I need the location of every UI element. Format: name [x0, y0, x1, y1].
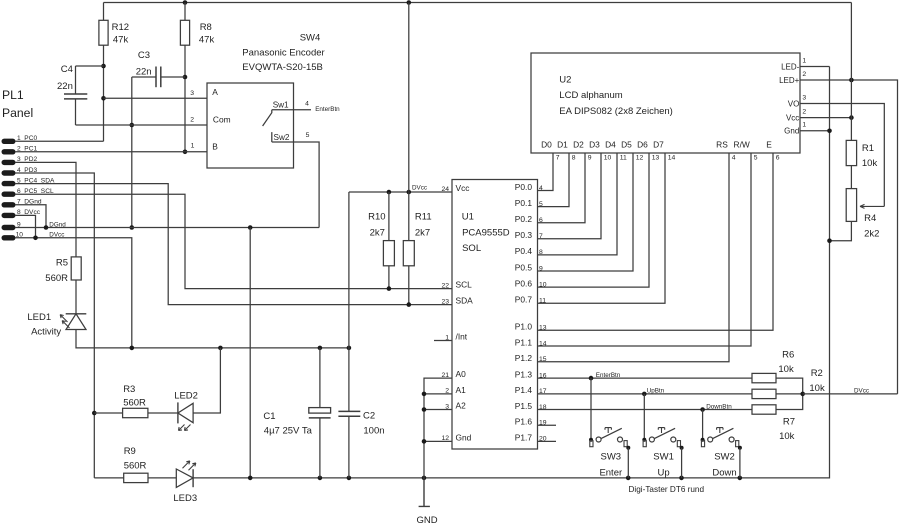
encoder SW4 box: [207, 83, 294, 168]
wire DVcc node to right rail: [803, 393, 898, 395]
svg-text:14: 14: [668, 155, 676, 162]
wire R4 bottom to gnd vertical: [830, 221, 852, 240]
wire pin6 PC5_SCL to U1 SCL: [15, 194, 452, 288]
junction top rail / R11 branch: [407, 0, 412, 5]
svg-text:10k: 10k: [779, 431, 795, 442]
connector PL1 pad pin 3: [2, 160, 16, 165]
junction R8 line / B wire: [183, 150, 188, 155]
wire LED2 up to DVcc row: [193, 348, 220, 413]
svg-text:D7: D7: [653, 139, 664, 149]
svg-text:EnterBtn: EnterBtn: [596, 372, 621, 379]
wire U2 VO to R4 wiper: [800, 104, 884, 207]
LED1 arrows: [60, 315, 69, 328]
svg-text:22: 22: [441, 282, 449, 289]
switch SW3 actuator: [605, 428, 611, 433]
svg-text:B: B: [212, 142, 218, 152]
svg-text:2k2: 2k2: [864, 228, 879, 239]
resistor R9: [124, 473, 148, 482]
svg-text:EVQWTA-S20-15B: EVQWTA-S20-15B: [242, 62, 323, 73]
wire U2 Vcc: [800, 117, 851, 119]
wire P0.6 to LCD D6: [538, 153, 650, 287]
svg-text:A1: A1: [456, 385, 467, 395]
junction DownBtn / SW2: [700, 407, 705, 412]
svg-text:Panel: Panel: [2, 106, 33, 120]
junction UpBtn / SW1: [642, 392, 647, 397]
svg-text:P0.1: P0.1: [515, 198, 533, 208]
connector PL1 pad pin 8: [2, 213, 16, 218]
svg-text:2: 2: [802, 108, 806, 115]
wire R2 right: [776, 393, 803, 395]
svg-text:SW3: SW3: [601, 452, 622, 463]
svg-text:EnterBtn: EnterBtn: [315, 106, 340, 113]
svg-text:R3: R3: [123, 384, 135, 395]
svg-text:D4: D4: [605, 139, 616, 149]
svg-text:Digi-Taster DT6 rund: Digi-Taster DT6 rund: [629, 485, 705, 494]
connector PL1 pad pin 6: [2, 192, 16, 197]
svg-text:10k: 10k: [862, 158, 878, 169]
LED LED2: [148, 412, 178, 414]
svg-text:R12: R12: [112, 22, 129, 33]
svg-text:Up: Up: [658, 467, 670, 478]
junction DVcc pins 8/10: [33, 236, 38, 241]
svg-text:3: 3: [802, 94, 806, 101]
connector PL1 pad pin 1: [2, 139, 16, 144]
svg-text:D6: D6: [637, 139, 648, 149]
svg-text:LED1: LED1: [27, 312, 51, 323]
wire P0.4 to LCD D4: [538, 153, 618, 255]
switch SW1 actuator: [658, 428, 664, 433]
svg-text:SDA: SDA: [456, 296, 474, 306]
svg-text:R7: R7: [783, 416, 795, 427]
junction Vcc wire / R10: [387, 190, 392, 195]
svg-text:10: 10: [604, 155, 612, 162]
svg-text:R6: R6: [782, 349, 794, 360]
U1 A0-A2 Gnd tie to ground: [424, 378, 452, 478]
junction GND rail / DGnd branch: [248, 476, 253, 481]
svg-text:DVcc: DVcc: [49, 232, 64, 239]
svg-text:PL1: PL1: [2, 88, 24, 102]
junction DGnd pins 7/9: [44, 225, 49, 230]
wire GND rail main: [193, 67, 829, 478]
resistor R2: [752, 389, 776, 398]
junction GND rail / C1: [318, 476, 323, 481]
connector PL1 pad pin 9: [2, 225, 16, 230]
svg-text:P1.1: P1.1: [515, 337, 533, 347]
connector PL1 pad pin 2: [2, 149, 16, 154]
svg-text:P1.4: P1.4: [515, 385, 533, 395]
svg-text:560R: 560R: [45, 273, 68, 284]
svg-text:R/W: R/W: [734, 139, 750, 149]
svg-text:P0.5: P0.5: [515, 262, 533, 272]
svg-text:Sw1: Sw1: [273, 101, 289, 110]
svg-text:560R: 560R: [123, 398, 146, 409]
switch SW3 left terminal+wire: [590, 378, 592, 440]
junction gnd vertical / A1: [422, 392, 427, 397]
wire P0.1 to LCD D1: [538, 153, 570, 207]
junction DVcc row / C2-Vcc line: [347, 346, 352, 351]
svg-text:R1: R1: [862, 143, 874, 154]
resistor R10: [388, 192, 390, 241]
svg-text:10k: 10k: [778, 364, 794, 375]
svg-text:/Int: /Int: [456, 332, 468, 342]
svg-text:Gnd: Gnd: [456, 433, 472, 443]
svg-text:23: 23: [441, 298, 449, 305]
junction Vcc wire / R11-top-rail: [407, 190, 412, 195]
svg-text:1: 1: [802, 122, 806, 129]
R4 wiper arrow: [860, 204, 884, 208]
LED2 arrows: [179, 425, 191, 431]
svg-text:D0: D0: [541, 139, 552, 149]
wire P1.4 UpBtn row: [538, 393, 753, 395]
wire P0.0 to LCD D0: [538, 153, 554, 191]
svg-text:RS: RS: [716, 139, 728, 149]
svg-text:11: 11: [620, 155, 627, 162]
svg-text:DownBtn: DownBtn: [706, 403, 732, 410]
wire C3 left down to DGnd: [131, 77, 133, 228]
resistor R8: [184, 3, 186, 21]
wire GND rail left segment: [94, 477, 123, 479]
svg-text:47k: 47k: [199, 34, 215, 45]
svg-text:C2: C2: [363, 411, 375, 422]
svg-text:SCL: SCL: [456, 280, 473, 290]
svg-text:3: 3: [190, 90, 194, 97]
wire P1.6 stub: [538, 424, 557, 426]
wire P1.2 to LCD RS: [538, 153, 730, 362]
junction gnd vertical / U2 Gnd: [827, 129, 832, 134]
capacitor C4: [75, 66, 77, 94]
connector PL1 pad pin 5: [2, 181, 16, 186]
wire U2 LED- to gnd vertical: [800, 66, 830, 68]
wire P1.1 to LCD R/W: [538, 153, 752, 346]
switch SW2 right terminal+wire: [736, 441, 739, 447]
junction DGnd run / x250 branch: [248, 225, 253, 230]
svg-text:D1: D1: [557, 139, 568, 149]
wire pin1 PC0 to A net: [15, 140, 104, 142]
resistor R7: [752, 405, 776, 414]
svg-text:LED-: LED-: [781, 62, 800, 71]
svg-text:P0.3: P0.3: [515, 230, 533, 240]
svg-text:R10: R10: [368, 212, 385, 223]
svg-text:Down: Down: [712, 467, 736, 478]
svg-text:EA DIPS082 (2x8 Zeichen): EA DIPS082 (2x8 Zeichen): [559, 106, 673, 117]
svg-text:P1.6: P1.6: [515, 417, 533, 427]
svg-text:DVcc: DVcc: [412, 185, 427, 192]
svg-text:P1.3: P1.3: [515, 369, 533, 379]
junction R11 / SDA wire: [407, 302, 412, 307]
junction gnd vertical / Gnd: [422, 439, 427, 444]
junction R10 / SCL wire: [387, 286, 392, 291]
junction R12 line / A wire: [101, 96, 106, 101]
junction EnterBtn / SW3: [589, 376, 594, 381]
svg-text:4µ7 25V Ta: 4µ7 25V Ta: [264, 426, 313, 437]
svg-text:1: 1: [191, 143, 195, 150]
wire pin2 PC1 to B: [15, 151, 207, 153]
svg-text:Vcc: Vcc: [786, 113, 799, 122]
svg-text:DVcc: DVcc: [854, 387, 869, 394]
IC U1 box PCA9555D: [452, 180, 538, 450]
svg-text:13: 13: [652, 155, 660, 162]
wire P0.5 to LCD D5: [538, 153, 634, 271]
svg-text:VO: VO: [788, 99, 800, 108]
svg-text:U1: U1: [462, 212, 474, 223]
svg-text:LCD alphanum: LCD alphanum: [559, 90, 622, 101]
wire R7 right to DVcc node: [776, 394, 803, 410]
LED3 arrows: [183, 461, 196, 470]
junction gnd vertical / A2: [422, 407, 427, 412]
wire DGnd branch down to GND rail: [249, 228, 251, 478]
svg-text:R9: R9: [124, 446, 136, 457]
svg-text:24: 24: [441, 186, 449, 193]
svg-text:7: 7: [556, 155, 560, 162]
LED LED1: [66, 313, 87, 315]
IC U2 LCD box: [531, 53, 800, 153]
svg-text:22n: 22n: [57, 81, 73, 92]
wire U2 Gnd: [800, 130, 830, 132]
U1 /Int stub: [434, 340, 452, 342]
svg-text:C3: C3: [138, 50, 150, 61]
junction DVcc row / C1: [318, 346, 323, 351]
svg-text:A2: A2: [456, 401, 467, 411]
svg-text:5: 5: [754, 155, 758, 162]
junction Vcc / divider: [849, 115, 854, 120]
svg-text:LED3: LED3: [173, 493, 197, 504]
svg-text:R11: R11: [415, 212, 432, 223]
svg-text:Enter: Enter: [599, 467, 622, 478]
junction GND rail / U1 gnd vertical: [422, 476, 427, 481]
wire LED1 to DVcc row: [76, 330, 349, 348]
wire pin4 PD3 down to R3/R9: [15, 173, 94, 478]
junction R8 line / C3 right: [183, 75, 188, 80]
svg-text:9: 9: [588, 155, 592, 162]
svg-text:6: 6: [776, 155, 780, 162]
switch SW1 left terminal+wire: [643, 394, 645, 440]
connector PL1 pad pin 10: [2, 235, 16, 240]
svg-text:E: E: [766, 139, 772, 149]
wire P1.3 EnterBtn row: [538, 377, 753, 379]
svg-text:P0.7: P0.7: [515, 295, 533, 305]
svg-text:DGnd: DGnd: [49, 221, 66, 228]
wire pin5 PC4_SDA to U1 SDA: [15, 184, 452, 305]
connector PL1 pad pin 7: [2, 202, 16, 207]
switch SW3 contacts and arm: [596, 437, 601, 442]
switch SW1 right terminal+wire: [677, 441, 680, 447]
svg-text:R8: R8: [200, 22, 212, 33]
LED LED3: [176, 469, 193, 487]
wire P0.3 to LCD D3: [538, 153, 602, 239]
junction GND rail / C2: [347, 476, 352, 481]
svg-text:Vcc: Vcc: [456, 183, 470, 193]
switch SW3 right terminal+wire: [624, 441, 627, 447]
svg-text:Sw2: Sw2: [274, 133, 290, 142]
svg-text:P1.5: P1.5: [515, 401, 533, 411]
svg-text:2k7: 2k7: [415, 228, 430, 239]
switch SW2 contacts and arm: [708, 437, 713, 442]
connector PL1 pad pin 4: [2, 170, 16, 175]
junction DVcc row / DVcc vertical: [130, 346, 135, 351]
wire GND rail R9-LED3: [148, 477, 176, 479]
svg-text:D2: D2: [573, 139, 584, 149]
svg-text:2: 2: [802, 71, 806, 78]
resistor R11: [403, 241, 414, 266]
svg-text:P0.6: P0.6: [515, 278, 533, 288]
junction DGnd line / Com wire: [130, 123, 135, 128]
trimmer R4: [846, 189, 856, 222]
wire pin3 PD2 to R5: [15, 162, 76, 257]
pin 5 stub to DGnd: [294, 142, 320, 228]
capacitor C2: [348, 192, 350, 411]
junction pullups DVcc node: [800, 392, 805, 397]
resistor R12: [103, 3, 105, 21]
wire node Com to SW4: [76, 124, 208, 126]
svg-text:LED+: LED+: [779, 76, 800, 85]
svg-text:Gnd: Gnd: [784, 127, 799, 136]
switch SW2 actuator: [717, 428, 723, 433]
svg-text:PCA9555D: PCA9555D: [462, 228, 510, 239]
svg-text:10k: 10k: [809, 383, 825, 394]
svg-text:4: 4: [732, 155, 736, 162]
wire pin9 + DGnd run: [15, 227, 319, 229]
junction R12 line / C4 top: [101, 64, 106, 69]
junction PD3 / R3 wire: [92, 411, 97, 416]
svg-text:R5: R5: [56, 258, 68, 269]
resistor R3: [94, 412, 122, 414]
wire top rail branch down to Vcc wire: [408, 3, 410, 241]
svg-text:D3: D3: [589, 139, 600, 149]
wire P0.2 to LCD D2: [538, 153, 586, 223]
svg-text:P0.4: P0.4: [515, 246, 533, 256]
svg-text:P1.2: P1.2: [515, 353, 533, 363]
wire top DVcc rail: [104, 2, 852, 4]
svg-text:2k7: 2k7: [370, 228, 385, 239]
svg-text:SW1: SW1: [653, 452, 674, 463]
svg-text:22n: 22n: [136, 66, 152, 77]
wire C4 top to R12 line: [76, 65, 104, 67]
switch SW1 contacts and arm: [649, 437, 654, 442]
svg-text:UpBtn: UpBtn: [647, 388, 665, 395]
junction GND rail / SW1: [679, 476, 684, 481]
wire node A to SW4: [104, 97, 208, 99]
svg-text:12: 12: [636, 155, 644, 162]
svg-text:8: 8: [572, 155, 576, 162]
wire R5 to LED1: [75, 280, 77, 314]
wire R1 to R4: [850, 166, 852, 189]
svg-text:C4: C4: [61, 64, 73, 75]
svg-text:5: 5: [306, 132, 310, 139]
resistor R5: [71, 257, 81, 280]
wire R6 right to DVcc node: [776, 378, 803, 394]
svg-text:P1.0: P1.0: [515, 322, 533, 332]
wire pin8 DVcc: [15, 215, 36, 237]
junction DVcc row / LED2 branch: [218, 346, 223, 351]
svg-text:SW2: SW2: [714, 452, 735, 463]
wire P0.7 to LCD D7: [538, 153, 666, 303]
svg-text:SOL: SOL: [462, 243, 481, 254]
svg-text:R4: R4: [864, 213, 876, 224]
wire top rail down to divider: [850, 3, 852, 141]
pin 4 stub EnterBtn: [294, 109, 312, 111]
wire DVcc to U1 Vcc: [349, 191, 452, 193]
wire P1.0 to LCD E: [538, 153, 774, 330]
svg-text:2: 2: [190, 117, 194, 124]
svg-text:P0.2: P0.2: [515, 214, 533, 224]
svg-text:LED2: LED2: [174, 391, 198, 402]
wire pin7 DGnd: [15, 205, 46, 228]
svg-text:A: A: [212, 87, 218, 97]
wire P1.5 DownBtn row: [538, 409, 753, 411]
junction top rail / R8: [183, 0, 188, 5]
svg-text:560R: 560R: [124, 461, 147, 472]
junction GND rail / SW2: [738, 476, 743, 481]
svg-text:Com: Com: [213, 114, 231, 124]
svg-text:R2: R2: [811, 368, 823, 379]
switch SW2 left terminal+wire: [702, 410, 704, 441]
svg-text:100n: 100n: [363, 426, 384, 437]
svg-text:P0.0: P0.0: [515, 182, 533, 192]
resistor R1: [846, 140, 856, 165]
svg-text:D5: D5: [621, 139, 632, 149]
svg-text:4: 4: [305, 100, 309, 107]
wire pin10 + DVcc run: [15, 238, 132, 348]
junction DGnd line / DGnd wire: [130, 225, 135, 230]
svg-text:U2: U2: [559, 74, 571, 85]
junction GND rail / SW3: [626, 476, 631, 481]
ground symbol GND: [419, 478, 430, 507]
capacitor C3: [132, 76, 156, 78]
svg-text:GND: GND: [416, 515, 437, 524]
svg-text:47k: 47k: [113, 34, 129, 45]
wire U2 LED+ to DVcc right rail: [800, 80, 898, 394]
junction gnd vertical / R4 bottom: [827, 238, 832, 243]
svg-text:C1: C1: [263, 411, 275, 422]
wire P1.7 stub: [538, 440, 557, 442]
svg-text:Panasonic Encoder: Panasonic Encoder: [242, 48, 324, 59]
svg-text:1: 1: [802, 57, 806, 64]
resistor R6: [752, 373, 776, 382]
junction LED+ / Vcc drop: [849, 78, 854, 83]
svg-text:Activity: Activity: [31, 327, 61, 338]
capacitor C1: [319, 348, 321, 408]
svg-text:SW4: SW4: [300, 32, 321, 43]
svg-text:P1.7: P1.7: [515, 433, 533, 443]
svg-text:A0: A0: [456, 369, 467, 379]
